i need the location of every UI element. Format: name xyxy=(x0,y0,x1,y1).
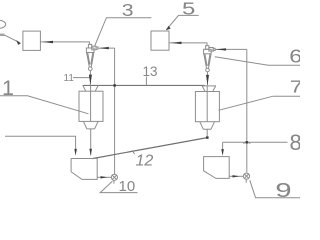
arrow into cyclone C3 inlet xyxy=(99,47,109,49)
arrow into pump P10 xyxy=(101,176,108,178)
cyclone C3 apex circle xyxy=(89,67,93,71)
wire feed into cyclone C3 xyxy=(98,47,114,49)
junction mill M2 drop and launder 12 xyxy=(206,136,209,138)
svg-text:7: 7 xyxy=(290,77,300,97)
mill M1 feed chute xyxy=(83,85,98,91)
cyclone C3 body xyxy=(86,48,94,53)
wire launder 12 xyxy=(92,138,207,159)
arrow line8 into tank T2 xyxy=(221,149,224,156)
wire label3 underline and leader xyxy=(95,18,152,47)
wire label7 underline and leader xyxy=(219,96,301,110)
tank T1 xyxy=(71,159,97,180)
wire riser pump9 to cyclone C6 xyxy=(246,49,248,172)
svg-text:11: 11 xyxy=(64,73,75,84)
wire label11 pointer xyxy=(73,77,90,79)
wire label9 underline and leader xyxy=(250,180,300,198)
feed hopper symbol (cut at left edge) xyxy=(0,20,6,28)
arrow fresh feed into tank T1 xyxy=(74,149,77,156)
wire label1 underline and leader xyxy=(0,96,89,114)
wire line 8 drop into tank T2 xyxy=(222,142,224,149)
mill M2 feed chute xyxy=(202,86,216,92)
arrow cyclone C3 underflow xyxy=(89,75,92,85)
svg-text:1: 1 xyxy=(2,76,14,100)
cyclone C6 vortex finder xyxy=(206,46,209,50)
svg-text:6: 6 xyxy=(289,47,300,67)
wire label6 underline and leader xyxy=(215,57,300,65)
wire cyclone C3 underflow xyxy=(89,71,91,85)
mill M2 body xyxy=(195,92,219,122)
wire mill M1 discharge to tank T1 xyxy=(90,129,92,155)
cyclone C3 vortex finder xyxy=(88,44,91,48)
wire label10 underline and leader xyxy=(100,181,137,192)
wire feed into cyclone C6 xyxy=(216,48,247,50)
arrow cyclone C6 underflow xyxy=(206,75,209,85)
box A (collector box left) xyxy=(23,31,41,50)
cyclone C6 body xyxy=(204,49,212,54)
cyclone C6 cone xyxy=(204,54,211,68)
pump P10 xyxy=(111,174,117,180)
arrow into pump P9 xyxy=(233,175,240,177)
wire line 8 xyxy=(223,141,288,143)
arrow mill M1 discharge into tank T1 xyxy=(89,149,92,156)
wire overflow cyclone3 to box A xyxy=(40,42,89,45)
pump P9 xyxy=(243,173,249,179)
arrow into cyclone C6 inlet xyxy=(216,48,226,50)
wire riser pump10 to cyclone C3 xyxy=(114,48,116,174)
cyclone C6 apex circle xyxy=(206,68,210,72)
wire kink at line8 riser crossing xyxy=(243,142,250,144)
wire label13 tick xyxy=(145,77,147,86)
wire mill M2 drop pipe xyxy=(206,129,208,137)
svg-text:13: 13 xyxy=(143,64,158,79)
junction riser and launder 13 xyxy=(113,84,116,87)
svg-text:8: 8 xyxy=(290,130,301,155)
box B (collector box right) xyxy=(151,31,169,50)
tank T2 xyxy=(204,157,230,179)
junction line8 and riser xyxy=(246,141,249,143)
mill M1 axis xyxy=(90,85,92,121)
svg-text:9: 9 xyxy=(275,179,291,200)
cyclone C3 inlet xyxy=(92,46,96,50)
svg-text:10: 10 xyxy=(119,178,136,195)
arrow label5 leader xyxy=(166,26,171,31)
wire tank T2 to pump P9 xyxy=(229,175,243,177)
mill M2 axis xyxy=(206,86,208,122)
wire under hopper xyxy=(0,34,5,35)
wire label12 tick xyxy=(132,150,135,154)
mill M2 discharge cone xyxy=(200,122,215,130)
arrow leader into box A xyxy=(16,40,21,45)
wire leader into box A xyxy=(5,35,19,42)
svg-text:12: 12 xyxy=(136,152,154,169)
wire launder 13 xyxy=(83,84,205,86)
arrow into box A xyxy=(43,41,54,44)
wire cyclone C6 underflow xyxy=(207,72,209,86)
cyclone C3 cone xyxy=(87,53,94,67)
mill M1 discharge cone xyxy=(83,121,98,128)
cyclone C6 inlet xyxy=(209,48,213,52)
arrow into box B xyxy=(171,42,182,45)
wire overflow cyclone6 to box B xyxy=(169,43,207,46)
svg-text:5: 5 xyxy=(182,0,195,19)
svg-text:3: 3 xyxy=(122,0,134,20)
wire fresh feed left xyxy=(5,136,76,149)
wire label5 underline and leader xyxy=(166,15,198,29)
mill M1 body xyxy=(79,91,103,121)
wire tank T1 to pump P10 xyxy=(97,176,111,178)
